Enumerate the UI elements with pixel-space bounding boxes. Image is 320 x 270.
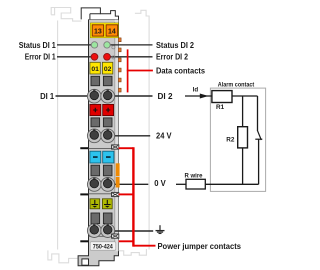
- ghost module outline left tab: [51, 8, 81, 22]
- power jumper contacts red highlight: [119, 147, 156, 246]
- clamp release D2: [103, 213, 112, 224]
- marker field 13/14 yellow: [90, 23, 118, 38]
- svg-text:14: 14: [108, 28, 116, 35]
- svg-text:0 V: 0 V: [154, 179, 166, 188]
- clamp release B2: [103, 118, 112, 127]
- power jumper tick left 2: [80, 193, 88, 195]
- power jumper tick left 1: [80, 147, 88, 149]
- power jumper ear 1: [112, 145, 119, 149]
- marker 13: [92, 25, 104, 36]
- LED service marks: [112, 46, 115, 49]
- clamp hole row2 left: [87, 129, 101, 143]
- wire Id arrow: [185, 95, 212, 97]
- ghost module foot right: [118, 249, 146, 255]
- clamp release B1: [91, 118, 100, 127]
- marker 02 yellow: [102, 62, 112, 74]
- side jumper contact orange strip: [116, 163, 120, 187]
- wire 24V: [108, 135, 151, 137]
- clamp hole row3 right: [101, 178, 115, 192]
- terminal plus right: [103, 104, 114, 115]
- wire status DI2 leader: [107, 44, 153, 46]
- clamp release C2: [103, 165, 112, 176]
- svg-text:24 V: 24 V: [156, 132, 172, 141]
- LED error DI1 red: [91, 53, 98, 60]
- terminal plus left: [90, 104, 101, 115]
- clamp release D1: [91, 213, 100, 224]
- svg-text:Power jumper contacts: Power jumper contacts: [158, 242, 242, 251]
- clamp release A2: [103, 76, 112, 85]
- svg-text:DI 2: DI 2: [158, 92, 174, 101]
- module side strip: [115, 20, 119, 251]
- module foot rail slot: [82, 259, 89, 265]
- marker 01 yellow: [90, 62, 100, 74]
- svg-text:Error DI 2: Error DI 2: [156, 53, 188, 62]
- data contacts red highlight: [127, 49, 153, 92]
- wire error DI2 leader: [107, 56, 153, 58]
- wire ground: [108, 230, 154, 232]
- alarm contact box: [210, 88, 265, 191]
- LED status DI1 green: [91, 42, 97, 48]
- svg-text:750-424: 750-424: [93, 244, 113, 251]
- clamp hole row4 right: [101, 224, 115, 238]
- power jumper tick left 3: [80, 240, 88, 242]
- wire below R2: [242, 148, 244, 184]
- svg-text:DI 1: DI 1: [40, 92, 55, 101]
- terminal minus left cyan: [90, 151, 101, 163]
- terminal minus right cyan: [103, 151, 114, 163]
- wire R2 branch down: [242, 96, 244, 127]
- switch alarm contact: [255, 96, 262, 184]
- svg-text:Status DI 2: Status DI 2: [156, 41, 195, 50]
- resistor R wire: [176, 183, 186, 185]
- ghost module outline right tab: [135, 10, 149, 249]
- power jumper ear 2: [112, 192, 119, 196]
- wire R1 to switch: [232, 95, 258, 97]
- svg-text:02: 02: [104, 66, 112, 73]
- wire bottom return: [205, 183, 258, 185]
- clamp release A1: [91, 76, 100, 85]
- svg-text:R2: R2: [226, 137, 235, 144]
- svg-text:R wire: R wire: [185, 173, 203, 180]
- svg-text:13: 13: [94, 28, 102, 35]
- resistor R2: [238, 127, 248, 148]
- svg-text:01: 01: [91, 66, 99, 73]
- terminal earth right: [102, 199, 112, 209]
- clamp release C1: [91, 165, 100, 176]
- ghost module foot left: [48, 250, 78, 262]
- resistor R1: [212, 91, 232, 103]
- LED error DI2 red: [104, 53, 111, 60]
- module seam lines: [89, 148, 119, 150]
- clamp hole row3 left: [87, 178, 101, 192]
- svg-text:Alarm contact: Alarm contact: [218, 81, 255, 88]
- svg-text:Id: Id: [193, 86, 199, 93]
- label plate 750-424: [90, 242, 116, 250]
- svg-text:Error DI 1: Error DI 1: [25, 53, 56, 62]
- clamp hole row4 left: [87, 224, 101, 238]
- wire error DI1 leader: [57, 56, 95, 58]
- ground symbol: [156, 225, 165, 233]
- wire DI1-DI2 line: [56, 95, 153, 97]
- svg-text:Data contacts: Data contacts: [156, 66, 206, 75]
- data contact bumps: [118, 38, 121, 92]
- module body 750-424: [78, 19, 118, 265]
- marker 14: [106, 25, 118, 36]
- wire 0V: [108, 183, 149, 185]
- terminal earth left: [90, 199, 100, 209]
- ghost module left edge vertical: [57, 21, 59, 250]
- module top latch tab: [81, 8, 118, 20]
- clamp hole row2 right: [101, 129, 115, 143]
- LED status DI2 green: [104, 42, 110, 48]
- clamp hole row1 left: [87, 89, 101, 103]
- clamp hole row1 right: [101, 89, 115, 103]
- svg-text:Status DI 1: Status DI 1: [19, 41, 56, 50]
- wire status DI1 leader: [57, 44, 95, 46]
- svg-text:R1: R1: [216, 104, 225, 111]
- power jumper ear 3: [112, 234, 119, 238]
